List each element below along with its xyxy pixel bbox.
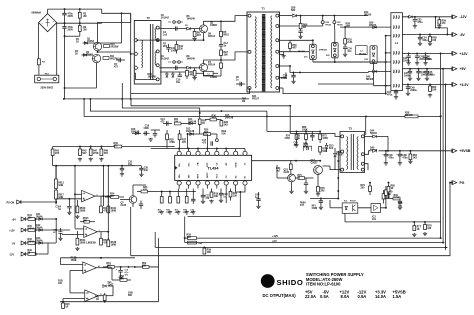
- diode D45 body: [373, 70, 377, 73]
- resistor R74: [290, 160, 292, 164]
- wire ps-on: [21, 201, 56, 203]
- resistor R15: [161, 192, 163, 197]
- wire -5V loop: [436, 17, 448, 35]
- node pin stub: [206, 148, 208, 150]
- resistor R12: [194, 68, 196, 71]
- wire bridge right down: [56, 23, 58, 75]
- svg-text:0.5A: 0.5A: [320, 294, 329, 299]
- transistor Q3 C3866: [200, 25, 208, 33]
- resistor R64 470: [409, 151, 411, 154]
- resistor R75: [298, 177, 305, 180]
- wire bus fb4: [84, 99, 441, 117]
- capacitor C62: [385, 151, 387, 154]
- capacitor C14: [145, 131, 147, 135]
- capacitor C61: [304, 183, 308, 185]
- capacitor C21 q7: [139, 204, 143, 206]
- resistor R341: [107, 196, 109, 206]
- node j1: [64, 8, 66, 10]
- rectifier D32 package: [332, 43, 339, 58]
- optocoupler IC2: [342, 203, 358, 213]
- resistor R545 10K: [84, 220, 90, 223]
- resistor R13 0R51: [220, 60, 222, 63]
- wire 3v3 spur: [318, 83, 374, 85]
- resistor R42: [79, 147, 81, 150]
- svg-text:10K: 10K: [224, 55, 229, 57]
- wire top loop to switch node: [102, 9, 131, 13]
- svg-text:1000u: 1000u: [404, 76, 411, 78]
- wire bus below 494: [155, 191, 196, 193]
- wire T1 bottom left: [237, 88, 250, 94]
- node pin stub: [197, 148, 199, 150]
- capacitor C7: [176, 26, 178, 30]
- svg-text:11: 11: [87, 293, 89, 295]
- transistor Q1 C5353: [93, 42, 101, 50]
- svg-text:15R: 15R: [432, 90, 437, 92]
- capacitor C43 2200u: [416, 53, 418, 55]
- svg-text:160B: 160B: [80, 211, 86, 213]
- wire pg bottom bus: [345, 221, 441, 223]
- transistor Q13: [288, 174, 296, 182]
- resistor R17: [177, 189, 179, 197]
- AC inlet FS1: [35, 75, 59, 83]
- svg-text:-12V: -12V: [9, 253, 14, 256]
- wire -5V rail: [402, 34, 451, 36]
- svg-text:FR155: FR155: [369, 25, 377, 27]
- wire sec2 rail: [279, 25, 323, 27]
- node j3: [64, 22, 66, 24]
- svg-text:12K: 12K: [233, 196, 238, 198]
- wire D31 to +12 node: [312, 58, 314, 62]
- capacitor C31b 47u: [60, 228, 62, 232]
- wire sec7 rail: [279, 87, 283, 89]
- T1 pin sec7: [276, 87, 279, 90]
- wire -5v row: [45, 242, 57, 244]
- wire box top: [53, 165, 136, 167]
- diode pair loop upper: [173, 21, 176, 24]
- wire 5vsb rail: [364, 151, 370, 155]
- IC U1 TL494 body: [175, 155, 252, 180]
- svg-text:15R: 15R: [346, 26, 351, 28]
- svg-text:SR160: SR160: [364, 15, 372, 17]
- wire caps bottom: [65, 35, 80, 37]
- svg-text:22.0A: 22.0A: [305, 294, 316, 299]
- ground Q13: [289, 190, 293, 194]
- wire +12V bottom rail: [185, 237, 442, 239]
- svg-text:PC817: PC817: [350, 201, 356, 203]
- T2 pin p1: [134, 38, 138, 42]
- svg-text:T1: T1: [262, 7, 266, 11]
- rectifier D33 package: [370, 46, 377, 64]
- resistor R39 rail: [188, 237, 197, 240]
- wire q7 coll: [132, 185, 134, 196]
- svg-text:5R160: 5R160: [370, 133, 378, 135]
- resistor R36 body: [210, 118, 217, 121]
- svg-text:DI04A: DI04A: [28, 227, 35, 230]
- wire vert x290: [289, 106, 291, 134]
- node rail2: [442, 242, 444, 244]
- capacitor C31 body: [121, 166, 123, 168]
- inductor L1 body: [391, 13, 403, 91]
- wire fb loop: [196, 133, 207, 135]
- connector +5VSB: [452, 149, 457, 153]
- resistor R59 470: [438, 17, 440, 20]
- resistor R63 body: [429, 85, 431, 87]
- capacitor C17b: [202, 189, 204, 196]
- capacitor C8: [176, 66, 178, 70]
- resistor R73: [319, 147, 322, 153]
- svg-text:6V2: 6V2: [329, 148, 334, 150]
- wire 12v row: [45, 229, 71, 231]
- capacitor C64: [399, 151, 401, 154]
- svg-text:0.5A: 0.5A: [358, 294, 367, 299]
- diode D44b body: [373, 135, 377, 138]
- wire bus psn: [74, 166, 76, 195]
- wire bottom rail: [60, 301, 159, 303]
- wire x52 down: [52, 156, 54, 166]
- wire u2b in+: [75, 228, 84, 230]
- transformer T2 body: [134, 21, 161, 85]
- ground below2: [168, 211, 172, 215]
- resistor R77: [413, 222, 415, 226]
- svg-text:1IN+: 1IN+: [179, 162, 181, 167]
- capacitor C50: [395, 89, 397, 91]
- wire Q2 emitter down: [96, 63, 98, 88]
- U1 pin 3: [196, 151, 200, 155]
- svg-text:FR104: FR104: [208, 64, 216, 67]
- capacitor C16 soft: [153, 134, 157, 136]
- svg-text:4u7: 4u7: [276, 170, 281, 173]
- svg-text:2200u: 2200u: [410, 90, 417, 92]
- resistor R47: [90, 147, 92, 150]
- svg-text:470u: 470u: [417, 21, 423, 24]
- capacitor C13 body: [167, 121, 169, 125]
- svg-text:+12V: +12V: [9, 229, 15, 232]
- capacitor C2 470u/200V: [64, 23, 66, 27]
- wire d45 stub: [368, 71, 370, 72]
- capacitor C19 4u7: [120, 267, 122, 270]
- svg-text:8: 8: [85, 271, 86, 273]
- svg-text:+3.3V: +3.3V: [460, 83, 470, 87]
- diode D28 FR155: [293, 14, 297, 17]
- logo circle SHIDO: [261, 274, 275, 288]
- svg-text:27K: 27K: [104, 153, 109, 155]
- node pin stub: [216, 148, 218, 150]
- resistor R48: [100, 147, 102, 150]
- svg-text:1N4148: 1N4148: [225, 117, 234, 120]
- T3 primary winding: [347, 136, 348, 169]
- svg-text:2R2: 2R2: [320, 191, 325, 193]
- pin D27 anode: [333, 21, 336, 24]
- svg-text:2A: 2A: [75, 52, 78, 55]
- svg-text:10n: 10n: [347, 51, 352, 53]
- resistor R37: [179, 130, 181, 134]
- wire L1 tap 35: [386, 35, 391, 37]
- wire u2c in+: [61, 264, 83, 266]
- resistor R23: [220, 119, 222, 122]
- wire sense rail A: [440, 53, 442, 238]
- diode D45: [39, 242, 42, 245]
- wire t2 left stub: [131, 53, 136, 55]
- svg-text:GND: GND: [235, 162, 237, 167]
- wire rows collect: [55, 219, 57, 243]
- T3 pin p2: [341, 150, 344, 153]
- resistor R46b: [62, 302, 64, 303]
- resistor R58b: [120, 279, 127, 282]
- ground T1 center tap: [279, 54, 284, 56]
- wire sec6 rail: [279, 72, 286, 77]
- wire q12 coll: [323, 165, 331, 167]
- svg-text:+5V: +5V: [272, 239, 277, 243]
- U1 pin 11: [224, 181, 228, 185]
- svg-text:470K: 470K: [284, 137, 290, 140]
- svg-text:1K8: 1K8: [107, 266, 112, 268]
- ground C34: [343, 53, 347, 57]
- svg-text:1K: 1K: [391, 188, 394, 190]
- T2 core: [149, 24, 151, 80]
- svg-text:-12V: -12V: [460, 15, 468, 19]
- svg-text:C945: C945: [121, 204, 127, 207]
- wire sec3 rail: [279, 39, 290, 41]
- resistor R43c: [103, 295, 106, 301]
- wire box left: [55, 166, 57, 205]
- capacitor C34 10n: [343, 47, 347, 49]
- wire q7 emit: [132, 203, 134, 207]
- svg-text:2M: 2M: [83, 29, 86, 31]
- diode D20: [172, 74, 175, 77]
- T2 pin p3: [134, 66, 138, 70]
- wire u2b out: [97, 231, 108, 233]
- wire T1 primary return: [131, 93, 237, 95]
- svg-text:SBL3040: SBL3040: [298, 50, 305, 53]
- wire u2d in-: [63, 298, 85, 300]
- wire q7 base: [120, 199, 129, 201]
- wire bus above 494: [151, 148, 245, 150]
- transistor Q2 C5353: [92, 54, 100, 62]
- svg-text:2.2K: 2.2K: [347, 42, 352, 44]
- svg-text:OUTC: OUTC: [207, 172, 209, 179]
- wire c bus left: [60, 258, 62, 265]
- svg-text:L3: L3: [207, 74, 209, 76]
- transistor Q4 C3866: [200, 64, 208, 72]
- diode D16: [135, 132, 138, 135]
- svg-text:270K: 270K: [93, 153, 99, 155]
- capacitor C5 snubber: [119, 58, 121, 62]
- wire bias c945: [225, 189, 227, 204]
- resistor R72: [319, 131, 321, 134]
- svg-text:+12V: +12V: [272, 234, 278, 238]
- T3 pin s4: [361, 168, 364, 171]
- diode D13: [190, 133, 194, 136]
- wire gnd bottom rail: [155, 246, 447, 248]
- wire out drive: [188, 192, 241, 217]
- svg-text:6: 6: [86, 235, 87, 237]
- ground below1: [160, 211, 164, 215]
- wire sec3 ext: [290, 39, 313, 41]
- wire 3.3 to L1: [373, 63, 375, 86]
- zener ZD6: [103, 285, 106, 288]
- wire T2 mid to bus: [136, 39, 204, 41]
- svg-text:D31: D31: [304, 57, 307, 59]
- wire 5vsb sense up: [365, 116, 367, 134]
- wire AC top to caps: [48, 8, 102, 10]
- resistor R61 1K8: [108, 266, 114, 269]
- svg-text:330: 330: [427, 228, 432, 230]
- wire aux bus: [267, 130, 320, 132]
- svg-text:2A: 2A: [76, 40, 79, 43]
- diode D2 base: [83, 54, 86, 57]
- U1 pin 4: [205, 151, 209, 155]
- resistor R2 2M: [79, 9, 81, 12]
- transformer T3 body: [340, 132, 365, 173]
- resistor R41: [52, 147, 54, 150]
- wire +5V rail: [402, 68, 451, 70]
- resistor R25 body: [141, 190, 148, 193]
- wire -12v row: [36, 253, 48, 255]
- T2 pin p2: [134, 52, 138, 56]
- svg-text:7: 7: [86, 229, 87, 231]
- svg-text:10K: 10K: [83, 220, 88, 222]
- svg-text:4R7: 4R7: [190, 73, 195, 76]
- svg-text:470u: 470u: [402, 156, 408, 159]
- resistor R547: [100, 258, 102, 259]
- svg-text:0R22W: 0R22W: [111, 47, 120, 49]
- resistor R67b 4R7: [186, 71, 189, 77]
- op-amp U2D LM339: [85, 290, 99, 302]
- resistor R3 2M: [79, 23, 81, 26]
- capacitor C304 5n: [68, 199, 70, 206]
- connector +5V: [452, 67, 457, 71]
- node rail3: [445, 246, 447, 248]
- wire T2s1 to Q3 base: [159, 28, 199, 30]
- resistor R79 body: [369, 183, 371, 186]
- svg-text:+5VSB: +5VSB: [460, 149, 471, 153]
- T3 pin s1: [361, 135, 364, 138]
- svg-text:TL494: TL494: [208, 167, 220, 171]
- svg-text:68K: 68K: [142, 266, 147, 268]
- resistor R540: [76, 200, 78, 206]
- wire c bus top: [61, 257, 136, 259]
- wire sense rail B: [442, 69, 444, 243]
- svg-text:PG: PG: [460, 181, 465, 185]
- U1 pin 16: [177, 181, 181, 185]
- wire lm right vert: [158, 238, 160, 302]
- capacitor C24c 152M: [293, 72, 295, 75]
- wire rail link: [184, 238, 186, 243]
- op-amp U2B LM339: [84, 226, 98, 238]
- resistor R19: [211, 189, 213, 193]
- svg-text:5: 5: [84, 193, 85, 195]
- capacitor C48 1000u: [418, 69, 420, 71]
- wire D28 out: [297, 15, 369, 17]
- svg-text:2A104J: 2A104J: [161, 58, 170, 61]
- connector +3.3V: [452, 83, 457, 87]
- svg-text:200V: 200V: [68, 29, 74, 31]
- svg-text:15KB: 15KB: [71, 260, 77, 262]
- svg-text:10K: 10K: [207, 252, 212, 254]
- resistor R35: [204, 133, 211, 136]
- wire c16 top: [151, 129, 160, 131]
- capacitor C54 -5: [419, 35, 421, 38]
- svg-text:160B: 160B: [80, 243, 86, 245]
- connector PG: [452, 181, 457, 185]
- svg-text:152K: 152K: [143, 128, 149, 130]
- U1 pin1 notch: [175, 166, 178, 170]
- capacitor C60: [310, 135, 314, 137]
- svg-text:C5027: C5027: [311, 163, 319, 165]
- resistor R60 4R: [300, 16, 302, 24]
- svg-text:C680: C680: [312, 208, 318, 210]
- svg-text:10n: 10n: [128, 164, 133, 166]
- svg-text:10K: 10K: [120, 279, 125, 281]
- svg-text:FR107: FR107: [337, 155, 345, 157]
- resistor R29b 1K: [385, 186, 387, 190]
- svg-text:SBL3040: SBL3040: [359, 53, 366, 56]
- wire lm339 vert2: [107, 166, 109, 240]
- node rail4: [449, 182, 451, 184]
- U1 pin 1: [177, 151, 181, 155]
- wire u2c d link: [111, 268, 113, 280]
- resistor R70 startup: [296, 131, 298, 134]
- T1 pin left1: [248, 14, 251, 17]
- ground C16: [149, 138, 153, 142]
- svg-text:0R51: 0R51: [223, 35, 229, 37]
- wire vert x266: [266, 111, 268, 131]
- wire u2c out: [96, 267, 112, 269]
- svg-text:100n: 100n: [171, 51, 177, 53]
- svg-text:4R: 4R: [303, 26, 306, 29]
- resistor R78: [424, 222, 426, 225]
- diode D3: [187, 27, 191, 30]
- ferrite bead L3: [204, 71, 213, 75]
- resistor R18: [186, 189, 188, 197]
- svg-text:PS-ON: PS-ON: [7, 201, 15, 204]
- TL431 IC3: [371, 204, 381, 213]
- T1 pin left3: [248, 87, 251, 90]
- capacitor C18: [192, 189, 194, 200]
- wire sec4 rail: [279, 51, 309, 53]
- wire opto out: [358, 207, 386, 209]
- svg-text:330u: 330u: [422, 40, 428, 42]
- wire fb vert: [187, 134, 189, 149]
- resistor R38: [166, 130, 168, 134]
- resistor R44 in: [28, 218, 35, 221]
- wire +12V rail: [402, 52, 451, 54]
- T1 secondary winding: [271, 16, 272, 88]
- svg-text:600MuH: 600MuH: [32, 12, 42, 15]
- resistor R1 fusible: [38, 23, 40, 59]
- node pin stub: [188, 148, 190, 150]
- svg-text:152M: 152M: [281, 78, 287, 80]
- resistor R49 in: [28, 253, 36, 256]
- wire corner C: [446, 246, 448, 248]
- wire t2 bot pin: [135, 73, 156, 80]
- wire u2b in-: [62, 234, 84, 236]
- T3 pin p3: [341, 168, 344, 171]
- wire dtc net: [206, 134, 208, 149]
- T3 pin s3: [361, 162, 364, 165]
- svg-text:STPR1620: STPR1620: [319, 50, 327, 52]
- wire +12 connects: [385, 61, 387, 63]
- zener ZD3: [325, 145, 328, 148]
- wire psn down: [74, 194, 76, 228]
- svg-text:100K: 100K: [302, 130, 308, 132]
- U1 pin 6: [224, 151, 228, 155]
- svg-text:1000u: 1000u: [428, 74, 435, 76]
- svg-text:5n6: 5n6: [144, 170, 149, 172]
- wire Q3 emitter: [203, 33, 205, 40]
- wire T2s3 to Q4 base: [159, 67, 199, 69]
- op-amp U2A LM339: [82, 190, 96, 202]
